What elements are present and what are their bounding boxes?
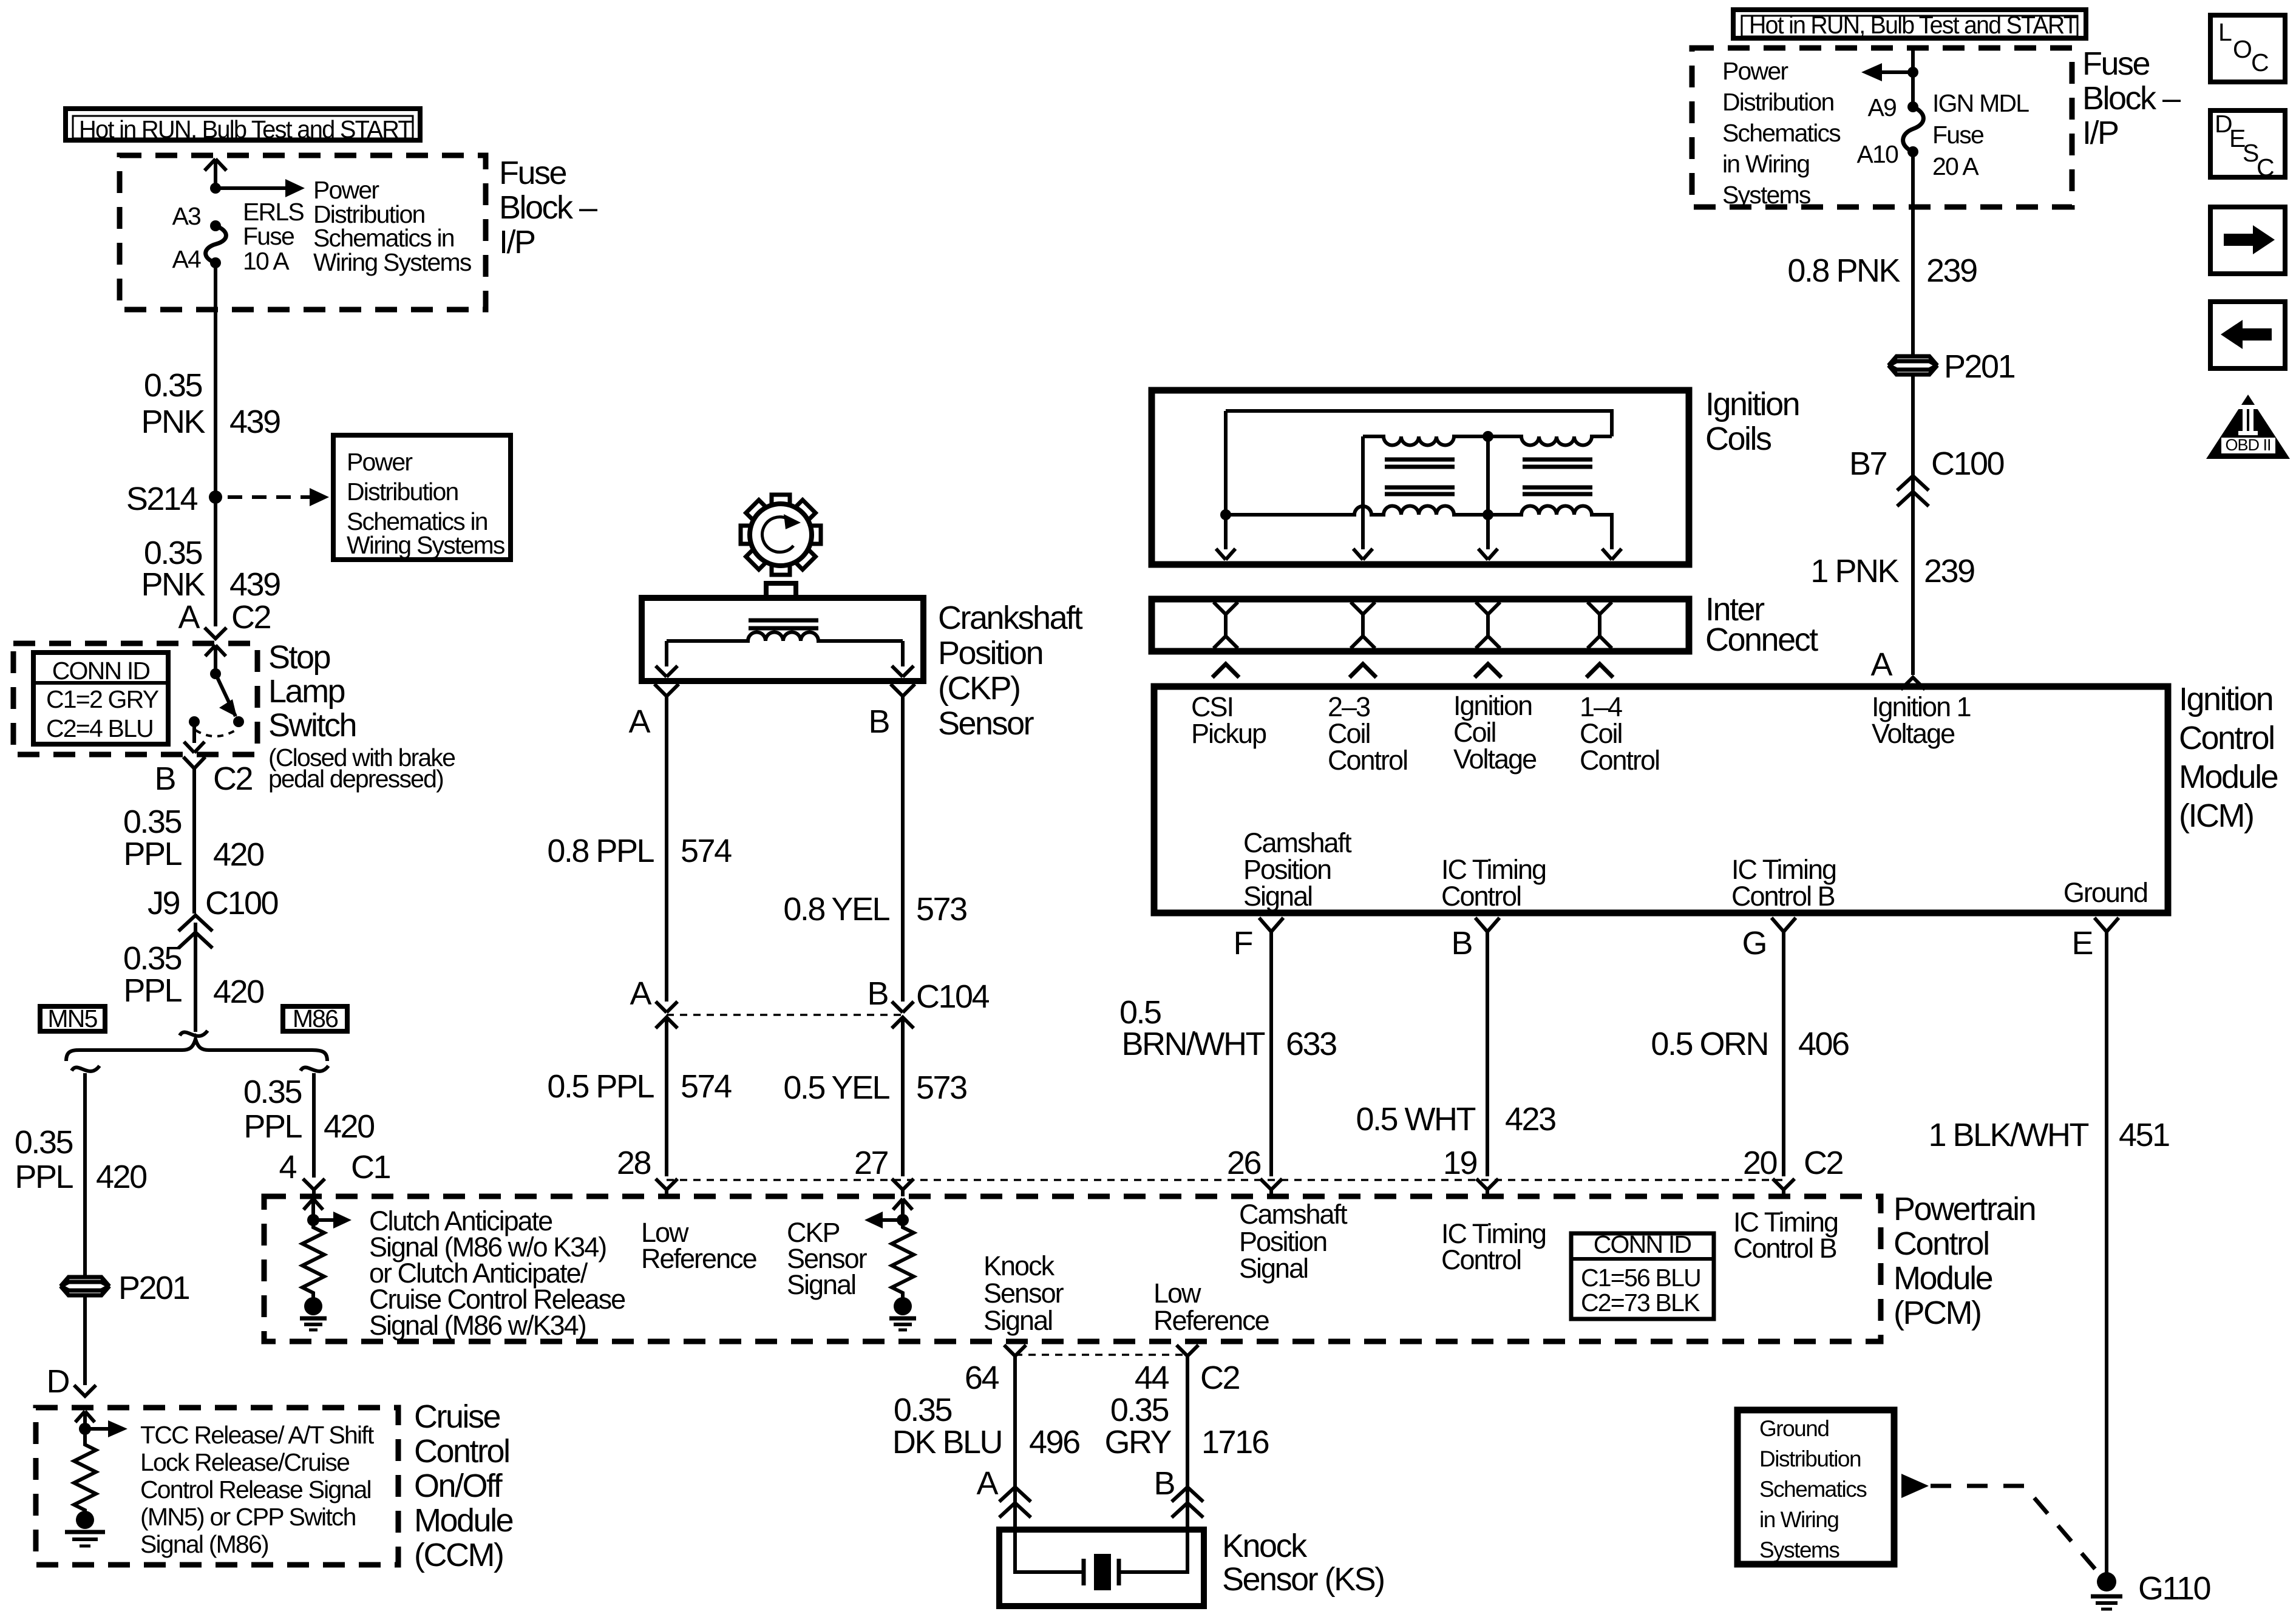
svg-text:Hot in RUN, Bulb Test and STAR: Hot in RUN, Bulb Test and START [79, 115, 413, 143]
ground distribution note box [1737, 1410, 1894, 1564]
ignition coils box [1152, 390, 1689, 564]
wire PPL 420 from C100 to splice brace [194, 923, 197, 1032]
svg-text:0.5 YEL: 0.5 YEL [783, 1070, 889, 1106]
svg-text:B: B [154, 761, 175, 797]
svg-text:0.35: 0.35 [243, 1074, 302, 1110]
CONN ID box (stop lamp switch) [33, 653, 168, 744]
connector half at A/C2 (open arrow down) [205, 628, 226, 639]
left arrow box [2210, 302, 2285, 368]
label 0.35 PPL 420 (M86 branch) [243, 1074, 374, 1145]
svg-text:423: 423 [1505, 1101, 1555, 1137]
connector half at B/C2 (fork up) [183, 757, 205, 768]
wire 0.35 DK BLU 496 (64 to KS A) [1013, 1356, 1017, 1530]
svg-text:0.35: 0.35 [123, 804, 182, 840]
coil output arrow 3 [1478, 549, 1498, 560]
ICM pin E fork [2094, 918, 2119, 932]
svg-text:PPL: PPL [123, 972, 182, 1009]
splice brace (harness split) [66, 1039, 327, 1061]
curl at top of M86 branch [301, 1066, 328, 1071]
interconnect contact 4 [1588, 602, 1612, 648]
connector half PCM pin 20 [1773, 1179, 1795, 1196]
switch: right contact dot [233, 716, 244, 727]
KS internal wiring [1015, 1530, 1187, 1572]
wire PNK 439 from fuse A4 down to S214 [214, 263, 217, 497]
DESC box [2210, 110, 2285, 181]
svg-text:C2=4 BLU: C2=4 BLU [46, 714, 153, 742]
wire 0.35 GRY 1716 (44 to KS B) [1186, 1356, 1189, 1530]
sensor pickup coil [667, 632, 903, 642]
svg-text:A: A [630, 975, 651, 1012]
svg-text:KnockSensorSignal: KnockSensorSignal [983, 1250, 1064, 1336]
svg-text:573: 573 [916, 891, 966, 927]
svg-text:420: 420 [96, 1159, 146, 1195]
coil feed vertical 3 [1486, 436, 1490, 549]
node dot primary center junction [1483, 509, 1493, 520]
wire 0.5 WHT 423 (B to 19) [1486, 932, 1489, 1176]
wire PNK 439 from S214 down to connector A/C2 [214, 497, 217, 626]
svg-text:Ground: Ground [2063, 877, 2147, 908]
CCM arrow to signal note [85, 1420, 127, 1437]
transformer T2 secondary winding [1488, 436, 1612, 446]
resistor at pin 27 [892, 1220, 914, 1298]
switch: output wire with arrow down [184, 722, 205, 753]
svg-text:F: F [1234, 925, 1252, 961]
pin A / connector C2 labels at stop lamp switch [178, 599, 270, 636]
connector half at D (open arrow down) [74, 1385, 96, 1396]
arrow to Power Distribution note (right fuse block) [1861, 63, 1913, 81]
header box "Hot in RUN, Bulb Test and START" (right) [1733, 10, 2086, 39]
label 1 PNK 239 [1810, 553, 1974, 589]
svg-text:573: 573 [916, 1070, 966, 1106]
svg-text:P201: P201 [1944, 348, 2015, 385]
wire from P201 down to CCM pin D [83, 1297, 87, 1385]
wire M86 branch down to PCM pin 4 [312, 1073, 316, 1178]
note box: Power Distribution Schematics in Wiring Systems (solid) [333, 435, 511, 560]
svg-text:239: 239 [1924, 553, 1974, 589]
label 0.5 ORN 406 [1651, 1026, 1849, 1062]
svg-text:20: 20 [1743, 1145, 1777, 1181]
svg-text:C1=2 GRY: C1=2 GRY [46, 685, 159, 713]
svg-text:PPL: PPL [123, 836, 182, 872]
inline connector on KS wire A (double chevron) [999, 1487, 1031, 1517]
rotation arrow inside gear [763, 514, 801, 552]
svg-text:0.35: 0.35 [144, 367, 202, 404]
transformer T2 core [1523, 459, 1592, 494]
labels J9 / C100 [148, 885, 278, 921]
svg-text:0.8 PNK: 0.8 PNK [1787, 253, 1900, 289]
ICM input caret 3 [1475, 664, 1501, 677]
connector half PCM pin 44 [1177, 1345, 1198, 1356]
svg-text:0.5 PPL: 0.5 PPL [547, 1068, 654, 1105]
node: junction dot above IGN MDL fuse [1907, 67, 1918, 78]
svg-text:574: 574 [681, 1068, 732, 1105]
labels 4 / C1 [279, 1149, 390, 1185]
connector half at ICM pin A (caret) [1901, 677, 1925, 690]
svg-text:0.5 WHT: 0.5 WHT [1356, 1101, 1475, 1137]
connector half PCM pin 27 [892, 1179, 914, 1196]
label 0.5 YEL 573 [783, 1070, 966, 1106]
svg-text:C: C [2251, 49, 2269, 76]
svg-text:PPL: PPL [243, 1108, 302, 1145]
label 0.35 PNK 439 (lower) [141, 535, 280, 603]
label box MN5 [40, 1005, 105, 1032]
wire MN5 branch down to P201 [83, 1073, 87, 1276]
svg-text:0.5 ORN: 0.5 ORN [1651, 1026, 1768, 1062]
switch: pivot dot [210, 668, 221, 679]
CONN ID box (PCM) [1571, 1230, 1714, 1319]
svg-text:239: 239 [1926, 253, 1977, 289]
svg-text:0.5: 0.5 [1119, 994, 1161, 1031]
coil output arrow 1 [1216, 549, 1235, 560]
svg-text:A: A [1870, 646, 1892, 683]
PCM pin 4 input arrow up [304, 1199, 323, 1220]
svg-text:0.8 PPL: 0.8 PPL [547, 833, 654, 869]
fuse block I/P dashed box (right) [1692, 48, 2072, 207]
label 0.35 PPL 420 (above J9) [123, 804, 263, 873]
sensor internal lead B with down arrow [892, 641, 914, 677]
sensor core lines [749, 620, 818, 628]
svg-text:420: 420 [324, 1108, 374, 1145]
connector half PCM pin 19 [1476, 1179, 1498, 1196]
node: junction dot above ERLS fuse [210, 183, 221, 194]
coil feed vertical 2 [1361, 436, 1365, 549]
svg-text:A4: A4 [172, 245, 201, 273]
connector C104 pin A (arrow into fork) [656, 1002, 678, 1028]
wire from P201 to ICM pin A [1911, 375, 1915, 675]
svg-text:574: 574 [681, 833, 732, 869]
interconnect contact 1 [1214, 602, 1238, 648]
label 0.35 PNK 439 (upper) [141, 367, 280, 440]
svg-text:O: O [2233, 35, 2251, 63]
transformer T1 core [1385, 459, 1455, 494]
label 0.35 GRY 1716 [1104, 1392, 1268, 1460]
wire 0.8 YEL 573 from sensor B to C104 [901, 696, 905, 1002]
wire 0.5 BRN/WHT 633 (F to 26) [1269, 932, 1273, 1176]
svg-text:BRN/WHT: BRN/WHT [1122, 1026, 1265, 1062]
svg-text:J9: J9 [148, 885, 180, 921]
svg-text:C2: C2 [213, 761, 252, 797]
labels A / B / C104 [630, 975, 989, 1015]
svg-text:C100: C100 [205, 885, 278, 921]
svg-text:PNK: PNK [141, 566, 205, 603]
node: CCM junction dot [79, 1423, 91, 1435]
svg-text:G: G [1742, 925, 1766, 961]
svg-text:1716: 1716 [1201, 1424, 1269, 1460]
transformer T2 primary winding [1488, 506, 1612, 550]
node: pin 27 junction dot [897, 1214, 909, 1226]
stop lamp switch dashed box [13, 643, 257, 754]
svg-text:C100: C100 [1931, 446, 2004, 482]
label 0.35 DK BLU 496 [892, 1392, 1079, 1460]
inter connect box [1152, 599, 1689, 651]
labels 26 / 19 / 20 / C2 [1227, 1145, 1843, 1181]
node: pin 4 junction dot [307, 1214, 319, 1226]
svg-text:26: 26 [1227, 1145, 1261, 1181]
wire 1 BLK/WHT 451 (E to G110) [2105, 932, 2108, 1573]
switch: input arrow up [205, 645, 226, 674]
svg-text:0.35: 0.35 [894, 1392, 952, 1428]
wire from header into right fuse block [1911, 48, 1915, 107]
svg-text:19: 19 [1443, 1145, 1477, 1181]
sensor pedestal mount [766, 583, 796, 600]
pass-through grommet P201 (right) [1889, 356, 1937, 375]
svg-text:PNK: PNK [141, 404, 205, 440]
svg-text:0.35: 0.35 [144, 535, 202, 571]
OBD II triangle [2206, 395, 2290, 459]
CCM input arrow up [75, 1411, 95, 1429]
thin dashed connector line C2 (PCM top) [667, 1179, 1784, 1181]
labels B7 / C100 [1849, 446, 2004, 482]
ground symbol at pin 27 [889, 1318, 916, 1330]
svg-text:L: L [2218, 18, 2232, 46]
svg-text:0.35: 0.35 [15, 1124, 73, 1161]
svg-text:C2: C2 [231, 599, 270, 636]
svg-text:IC TimingControl B: IC TimingControl B [1731, 854, 1836, 912]
ground dot in CCM [76, 1511, 94, 1529]
svg-text:GRY: GRY [1104, 1424, 1171, 1460]
ground dot at pin 4 [304, 1297, 322, 1315]
PCM pin 27 input arrow up [893, 1199, 912, 1220]
svg-text:C2: C2 [1200, 1360, 1239, 1396]
svg-text:A3: A3 [172, 202, 200, 230]
switch: moving contact blade with arrowhead [216, 674, 237, 717]
svg-text:OBD II: OBD II [2225, 436, 2271, 454]
connector half PCM pin 28 [656, 1179, 678, 1196]
label 0.8 YEL 573 [783, 891, 966, 927]
coil feed vertical 1 [1224, 411, 1228, 549]
splice S214 [126, 481, 222, 517]
svg-text:B7: B7 [1849, 446, 1887, 482]
svg-text:MN5: MN5 [47, 1005, 97, 1032]
wire PPL 420 from switch to J9/C100 [192, 768, 196, 914]
svg-text:C1: C1 [351, 1149, 390, 1185]
label box M86 [283, 1005, 347, 1032]
svg-text:4: 4 [279, 1149, 296, 1185]
svg-text:DK BLU: DK BLU [892, 1424, 1002, 1460]
svg-text:406: 406 [1798, 1026, 1849, 1062]
node dot secondary junction [1483, 431, 1493, 442]
svg-text:C1=56 BLU: C1=56 BLU [1581, 1264, 1700, 1292]
svg-text:0.35: 0.35 [1110, 1392, 1169, 1428]
wire 0.8 PPL 574 from sensor A to C104 [665, 696, 668, 1002]
pin 4 arrow to signal note [313, 1212, 352, 1229]
svg-text:A10: A10 [1856, 140, 1898, 168]
svg-text:420: 420 [213, 836, 263, 873]
svg-text:27: 27 [854, 1145, 888, 1181]
sensor terminal B fork [891, 684, 915, 696]
ground dot at pin 27 [894, 1297, 912, 1315]
svg-text:CONN ID: CONN ID [52, 657, 150, 685]
coil output arrow 2 [1353, 549, 1373, 560]
LOC box [2210, 15, 2285, 82]
wire 0.5 PPL 574 from C104 to PCM pin 28 [665, 1017, 668, 1176]
svg-text:A: A [628, 703, 650, 740]
thin dashed connector line C104 [667, 1014, 903, 1016]
knock sensor box [999, 1530, 1204, 1606]
svg-text:B: B [1153, 1465, 1174, 1502]
svg-text:439: 439 [229, 404, 280, 440]
header box "Hot in RUN, Bulb Test and START" (left) [66, 109, 420, 143]
svg-text:451: 451 [2119, 1117, 2169, 1153]
ICM pin B fork [1475, 918, 1500, 932]
ICM pin F fork [1259, 918, 1283, 932]
pass-through grommet P201 (left) [61, 1277, 109, 1295]
pin 27 arrow to CKP note (left) [864, 1212, 903, 1229]
powertrain control module dashed box [264, 1196, 1881, 1341]
label 0.8 PPL 574 [547, 833, 732, 869]
wire 0.5 YEL 573 from C104 to PCM pin 27 [901, 1017, 905, 1176]
switch: dashed travel arc [195, 729, 237, 736]
svg-text:PPL: PPL [15, 1159, 73, 1195]
svg-text:B: B [1451, 925, 1472, 961]
inline connector B7/C100 (double chevron) [1897, 476, 1929, 506]
coil output arrow 4 [1602, 549, 1622, 560]
svg-text:B: B [867, 975, 888, 1012]
svg-text:A9: A9 [1867, 93, 1896, 121]
ICM pin G fork [1771, 918, 1796, 932]
svg-text:0.8 YEL: 0.8 YEL [783, 891, 889, 927]
svg-text:P201: P201 [118, 1270, 189, 1306]
label 0.35 PPL 420 (MN5 branch) [15, 1124, 146, 1195]
switch: left fixed contact dot [189, 716, 200, 727]
ICM input caret 1 [1212, 664, 1239, 677]
svg-text:A: A [178, 599, 200, 636]
fuse block I/P dashed box (left) [120, 155, 486, 310]
svg-text:C2=73 BLK: C2=73 BLK [1581, 1289, 1700, 1317]
dashed arrow from ground note to G110 [1901, 1474, 2096, 1570]
ground symbol in CCM [65, 1532, 105, 1546]
label 0.5 BRN/WHT 633 [1119, 994, 1336, 1062]
thin dashed connector line C2 (PCM bottom) [1015, 1354, 1187, 1356]
connector half pin 4 (fork up) [303, 1179, 325, 1196]
ICM input caret 4 [1586, 664, 1613, 677]
transformer T1 primary winding with crossover hop [1226, 506, 1488, 515]
sensor terminal A fork [654, 684, 679, 696]
curl at top of MN5 branch [72, 1066, 100, 1071]
svg-text:CONN ID: CONN ID [1594, 1230, 1691, 1258]
sensor internal lead A with down arrow [656, 641, 678, 677]
svg-text:44: 44 [1135, 1360, 1169, 1396]
svg-text:420: 420 [213, 974, 263, 1010]
arrow to Power Distribution note (left fuse block) [216, 179, 305, 197]
inline connector J9/C100 (double chevron) [178, 915, 212, 948]
fuse IGN MDL 20A element [1903, 101, 1924, 157]
svg-text:C: C [2257, 154, 2274, 181]
transformer T1 secondary winding [1363, 436, 1488, 446]
svg-text:64: 64 [965, 1360, 999, 1396]
label 0.5 PPL 574 [547, 1068, 732, 1105]
svg-text:0.35: 0.35 [123, 940, 182, 977]
cruise control module dashed box [36, 1408, 398, 1565]
wire end curl above brace [180, 1031, 208, 1036]
svg-text:IC TimingControl B: IC TimingControl B [1733, 1207, 1838, 1264]
svg-text:633: 633 [1286, 1026, 1336, 1062]
resistor in CCM [74, 1429, 96, 1513]
label 0.35 PPL 420 (below J9) [123, 940, 263, 1010]
coils top feed rail [1226, 411, 1612, 436]
svg-text:CruiseControlOn/OffModule(CCM): CruiseControlOn/OffModule(CCM) [414, 1398, 513, 1573]
node dot primary left junction [1220, 509, 1231, 520]
ignition control module box [1154, 686, 2168, 913]
svg-text:G110: G110 [2138, 1570, 2210, 1607]
svg-text:1 BLK/WHT: 1 BLK/WHT [1928, 1117, 2088, 1153]
svg-text:M86: M86 [293, 1005, 338, 1032]
svg-text:B: B [868, 703, 889, 740]
piezo element plates [1084, 1554, 1119, 1590]
ground symbol at pin 4 [300, 1318, 327, 1330]
inline connector on KS wire B (double chevron) [1172, 1487, 1203, 1517]
connector half PCM pin 26 [1260, 1179, 1282, 1196]
svg-text:C2: C2 [1804, 1145, 1843, 1181]
svg-text:28: 28 [617, 1145, 651, 1181]
label 1 BLK/WHT 451 [1928, 1117, 2169, 1153]
wire from header into fuse block with up arrow [205, 159, 226, 188]
wire 0.8 PNK 239 from fuse to P201 [1911, 152, 1915, 356]
svg-text:S214: S214 [126, 481, 198, 517]
svg-text:Hot in RUN, Bulb Test and STAR: Hot in RUN, Bulb Test and START [1749, 11, 2078, 39]
ICM input caret 2 [1350, 664, 1376, 677]
pin B / connector C2 labels below switch [154, 761, 252, 797]
reluctor gear wheel [741, 495, 821, 575]
svg-text:E: E [2071, 925, 2092, 961]
CKP sensor box [642, 598, 923, 681]
svg-text:D: D [47, 1363, 69, 1400]
interconnect contact 2 [1351, 602, 1375, 648]
connector half PCM pin 64 [1004, 1345, 1026, 1356]
labels 64 / 44 / C2 [965, 1360, 1240, 1396]
connector C104 pin B (arrow into fork) [892, 1002, 914, 1028]
svg-text:1 PNK: 1 PNK [1810, 553, 1899, 589]
svg-text:A: A [976, 1465, 998, 1502]
ground G110 [2091, 1572, 2122, 1609]
dashed arrow from S214 to note box [228, 488, 329, 506]
right arrow box [2210, 207, 2285, 274]
label 0.5 WHT 423 [1356, 1101, 1555, 1137]
interconnect contact 3 [1476, 602, 1500, 648]
svg-text:C104: C104 [916, 978, 990, 1015]
wire 0.5 ORN 406 (G to 20) [1782, 932, 1785, 1176]
svg-text:(Closed with brakepedal depres: (Closed with brakepedal depressed) [268, 744, 455, 793]
svg-text:439: 439 [229, 566, 280, 603]
label 0.8 PNK 239 [1787, 253, 1977, 289]
svg-text:496: 496 [1029, 1424, 1079, 1460]
resistor at pin 4 [302, 1220, 324, 1298]
fuse ERLS 10A element (S-curve with terminal dots) [206, 220, 226, 268]
